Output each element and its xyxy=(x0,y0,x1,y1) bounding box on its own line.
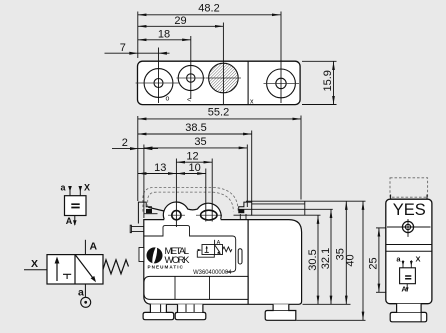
svg-text:29: 29 xyxy=(174,15,186,27)
svg-text:15.9: 15.9 xyxy=(322,70,334,91)
svg-text:7: 7 xyxy=(120,42,126,54)
svg-text:W3604000004: W3604000004 xyxy=(193,269,232,276)
svg-text:x: x xyxy=(250,99,254,106)
svg-text:48.2: 48.2 xyxy=(198,3,219,15)
svg-text:YES: YES xyxy=(393,201,426,219)
svg-text:X: X xyxy=(31,258,38,270)
svg-text:38.5: 38.5 xyxy=(185,122,206,134)
svg-text:o: o xyxy=(166,96,170,103)
svg-text:2: 2 xyxy=(122,137,128,149)
svg-text:A: A xyxy=(217,240,221,246)
svg-text:PNEUMATIC: PNEUMATIC xyxy=(148,265,184,270)
svg-text:13: 13 xyxy=(154,162,166,174)
svg-text:32.1: 32.1 xyxy=(320,248,332,269)
svg-text:25: 25 xyxy=(368,257,380,269)
svg-text:12: 12 xyxy=(186,151,198,163)
svg-text:55.2: 55.2 xyxy=(208,107,229,119)
svg-text:A: A xyxy=(401,284,407,293)
svg-text:35: 35 xyxy=(194,136,206,148)
svg-text:A: A xyxy=(66,216,73,226)
svg-text:40: 40 xyxy=(345,254,357,266)
svg-text:a: a xyxy=(78,286,84,298)
svg-text:30.5: 30.5 xyxy=(307,249,319,270)
svg-text:X: X xyxy=(416,255,421,264)
svg-text:X: X xyxy=(84,183,90,193)
svg-text:18: 18 xyxy=(158,29,170,41)
svg-text:A: A xyxy=(90,241,98,253)
svg-text:10: 10 xyxy=(188,162,200,174)
